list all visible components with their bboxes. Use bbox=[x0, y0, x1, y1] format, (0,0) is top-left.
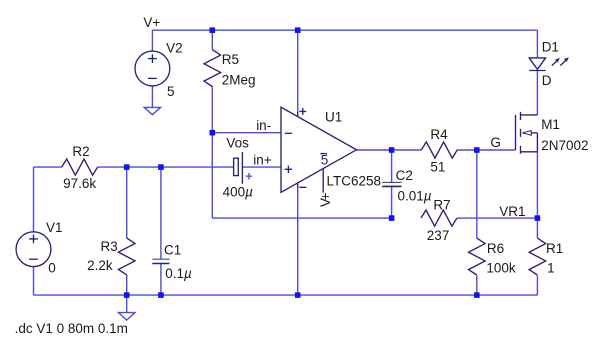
svg-text:in+: in+ bbox=[253, 152, 272, 167]
junction C2 bottom bbox=[389, 215, 395, 221]
svg-text:R4: R4 bbox=[430, 127, 448, 142]
wire V2 top stub bbox=[151, 30, 153, 51]
svg-text:R3: R3 bbox=[101, 239, 118, 254]
wire input row mid bbox=[98, 166, 234, 168]
resistor R2 bbox=[62, 159, 98, 175]
transistor M1 bbox=[516, 112, 538, 154]
svg-text:.dc V1 0 80m 0.1m: .dc V1 0 80m 0.1m bbox=[15, 321, 128, 336]
wire feedback drop bbox=[211, 133, 213, 218]
svg-text:VR1: VR1 bbox=[499, 204, 525, 219]
wire R3 top lead bbox=[126, 167, 128, 238]
junction G node bbox=[474, 147, 480, 153]
op-amp U1 bbox=[281, 107, 357, 192]
resistor R4 bbox=[421, 142, 457, 158]
svg-text:R7: R7 bbox=[433, 198, 450, 213]
svg-text:C2: C2 bbox=[396, 168, 413, 183]
junction rail C1 bbox=[158, 292, 164, 298]
wire R6 top lead bbox=[476, 150, 478, 238]
wire in- horizontal bbox=[212, 132, 281, 134]
svg-text:2Meg: 2Meg bbox=[222, 73, 256, 88]
svg-text:G: G bbox=[490, 135, 501, 150]
wire R3 bottom lead bbox=[126, 275, 128, 295]
wire C2 top lead bbox=[391, 150, 393, 182]
svg-text:237: 237 bbox=[427, 228, 450, 243]
wire C2 bottom lead bbox=[391, 186, 393, 218]
wire feedback rail bbox=[212, 217, 391, 219]
resistor R5 bbox=[204, 50, 221, 87]
resistor R3 bbox=[118, 238, 135, 275]
junction R3 top bbox=[124, 164, 130, 170]
svg-text:D: D bbox=[542, 73, 552, 88]
wire R7 right to VR1 bbox=[457, 217, 537, 219]
svg-text:R1: R1 bbox=[546, 241, 563, 256]
ground under V2 bbox=[144, 107, 160, 114]
battery source Vos bbox=[234, 152, 253, 184]
junction C2 top bbox=[389, 147, 395, 153]
wire V2 bottom stub bbox=[151, 86, 153, 108]
svg-text:V1: V1 bbox=[46, 220, 63, 235]
pin op-amp V- stub bbox=[297, 183, 299, 188]
LED D1 bbox=[529, 58, 545, 71]
wire C1 top lead bbox=[160, 167, 162, 259]
wire R5 bottom lead bbox=[211, 87, 213, 133]
wire in+ to op-amp bbox=[242, 166, 281, 168]
wire D1 cathode to drain bbox=[536, 71, 538, 115]
svg-text:D1: D1 bbox=[542, 39, 559, 54]
svg-text:2N7002: 2N7002 bbox=[541, 138, 588, 153]
wire op-amp output bbox=[357, 149, 422, 151]
svg-text:2.2k: 2.2k bbox=[87, 258, 113, 273]
svg-text:Vos: Vos bbox=[226, 135, 249, 150]
svg-text:0.1µ: 0.1µ bbox=[165, 266, 192, 281]
svg-text:5: 5 bbox=[321, 153, 329, 168]
voltage source V1 bbox=[16, 232, 51, 267]
junction rail R3 bbox=[124, 292, 130, 298]
junction rail R6 bbox=[474, 292, 480, 298]
resistor R1 bbox=[529, 238, 546, 275]
wire M1 source to VR1 bbox=[536, 152, 538, 218]
wire R1 bottom lead bbox=[536, 276, 538, 296]
junction VR1 bbox=[535, 215, 541, 221]
wire V1 top lead bbox=[33, 167, 35, 232]
junction C1 top bbox=[158, 164, 164, 170]
svg-text:U1: U1 bbox=[325, 110, 342, 125]
svg-text:1: 1 bbox=[547, 261, 555, 276]
junction V+ opamp bbox=[295, 27, 301, 33]
wire op-amp V+ supply bbox=[297, 30, 299, 112]
svg-text:100k: 100k bbox=[486, 261, 516, 276]
wire R5 top lead bbox=[211, 30, 213, 49]
svg-text:0: 0 bbox=[48, 261, 56, 276]
svg-text:V2: V2 bbox=[166, 41, 183, 56]
wire ground stub bottom rail bbox=[126, 295, 128, 313]
svg-text:C1: C1 bbox=[164, 242, 181, 257]
svg-text:R6: R6 bbox=[487, 241, 504, 256]
wire R6 bottom lead bbox=[476, 276, 478, 296]
wire shdn pin stub bbox=[322, 169, 324, 193]
svg-text:400µ: 400µ bbox=[223, 184, 254, 199]
capacitor C2 bbox=[382, 182, 401, 186]
wire op-amp V- supply bbox=[297, 188, 299, 296]
svg-text:97.6k: 97.6k bbox=[63, 176, 96, 191]
ground on bottom rail bbox=[119, 313, 135, 321]
resistor R6 bbox=[468, 238, 485, 275]
junction rail opamp bbox=[295, 292, 301, 298]
wire input row left bbox=[34, 166, 62, 168]
svg-text:LTC6258: LTC6258 bbox=[327, 173, 382, 188]
voltage source V2 bbox=[135, 51, 170, 86]
svg-text:R2: R2 bbox=[72, 144, 89, 159]
svg-text:5: 5 bbox=[167, 84, 175, 99]
svg-text:V+: V+ bbox=[143, 15, 160, 30]
LED arrows bbox=[552, 57, 569, 66]
wire D1 anode bbox=[536, 30, 538, 58]
junction V+ R5 bbox=[210, 27, 216, 33]
capacitor C1 bbox=[152, 259, 169, 263]
wire bottom ground rail bbox=[34, 294, 538, 296]
junction in- node bbox=[210, 130, 216, 136]
wire top rail V+ bbox=[152, 29, 537, 31]
resistor R7 bbox=[421, 210, 457, 226]
wire C1 bottom lead bbox=[160, 263, 162, 295]
svg-text:in-: in- bbox=[256, 118, 271, 133]
wire R1 top lead bbox=[536, 218, 538, 238]
pin op-amp V+ stub bbox=[297, 112, 299, 117]
svg-text:51: 51 bbox=[430, 159, 445, 174]
svg-text:M1: M1 bbox=[541, 117, 560, 132]
wire R4 to gate bbox=[457, 149, 516, 151]
svg-text:0.01µ: 0.01µ bbox=[398, 189, 432, 204]
wire V1 bottom lead bbox=[33, 267, 35, 296]
svg-text:R5: R5 bbox=[222, 52, 239, 67]
svg-text:V+: V+ bbox=[318, 192, 333, 207]
